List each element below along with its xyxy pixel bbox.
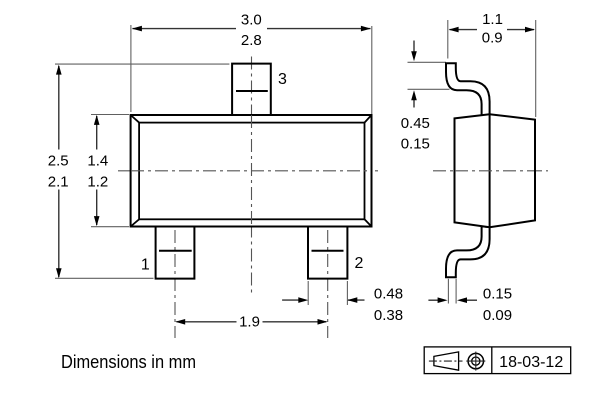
svg-text:2.1: 2.1 [48,174,69,191]
svg-text:1.4: 1.4 [87,152,108,169]
svg-text:1.9: 1.9 [239,313,260,330]
svg-text:0.15: 0.15 [483,285,512,302]
svg-text:2: 2 [354,255,363,272]
svg-text:1: 1 [141,257,150,274]
svg-text:1.2: 1.2 [87,174,108,191]
svg-text:3: 3 [278,71,287,88]
svg-text:0.45: 0.45 [401,115,430,132]
svg-text:18-03-12: 18-03-12 [499,354,563,371]
svg-text:0.38: 0.38 [374,307,403,324]
svg-text:0.9: 0.9 [482,29,503,46]
svg-text:1.1: 1.1 [482,11,503,28]
svg-text:2.8: 2.8 [241,32,262,49]
svg-text:0.09: 0.09 [483,307,512,324]
svg-text:Dimensions in mm: Dimensions in mm [61,352,196,372]
svg-text:3.0: 3.0 [241,11,262,28]
svg-text:0.15: 0.15 [401,135,430,152]
svg-text:0.48: 0.48 [374,285,403,302]
svg-text:2.5: 2.5 [48,152,69,169]
